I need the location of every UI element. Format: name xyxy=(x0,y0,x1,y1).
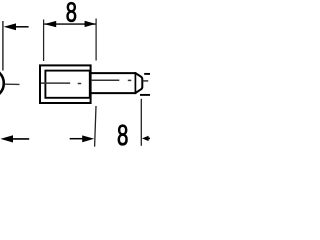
svg-text:8: 8 xyxy=(66,0,77,28)
end-view horizontal centerline xyxy=(5,83,20,85)
centerline dash pin xyxy=(91,79,119,81)
centerline dot body xyxy=(78,83,82,85)
bottom dimension left arrowhead xyxy=(82,135,94,142)
pin chamfer vertical line xyxy=(134,72,136,94)
right edge bottom stub line xyxy=(140,94,150,96)
pin bottom line xyxy=(91,92,136,94)
top dimension left extension line xyxy=(43,20,45,62)
bottom dimension right extension line xyxy=(140,99,142,146)
top dimension line xyxy=(44,23,95,25)
body inner rectangle xyxy=(45,71,89,98)
centerline dot pin xyxy=(128,79,132,81)
top dimension left arrowhead xyxy=(44,21,56,27)
top dimension right extension line xyxy=(95,19,97,61)
right edge top stub line xyxy=(144,73,150,75)
end-view vertical centerline xyxy=(2,21,4,71)
bottom dimension right arrow tail xyxy=(148,137,150,139)
pin top line xyxy=(91,72,136,74)
top dimension right arrowhead xyxy=(85,21,96,27)
bottom dimension left extension line xyxy=(95,106,96,147)
centerline dash tip xyxy=(143,80,149,82)
cropped left dimension tail xyxy=(16,26,29,28)
svg-text:8: 8 xyxy=(117,121,128,150)
bottom dimension left arrow tail xyxy=(70,138,83,140)
centerline dash body xyxy=(41,82,70,84)
body outer rectangle xyxy=(40,65,91,103)
pin tip chamfer and cap outline xyxy=(135,73,142,93)
cropped left dimension arrowhead xyxy=(4,23,16,30)
end-view circle (left, cropped) xyxy=(0,69,4,98)
bottom-left cropped arrow tail xyxy=(13,138,30,140)
bottom dimension right arrowhead xyxy=(142,136,149,141)
bottom-left cropped arrowhead xyxy=(0,135,13,142)
